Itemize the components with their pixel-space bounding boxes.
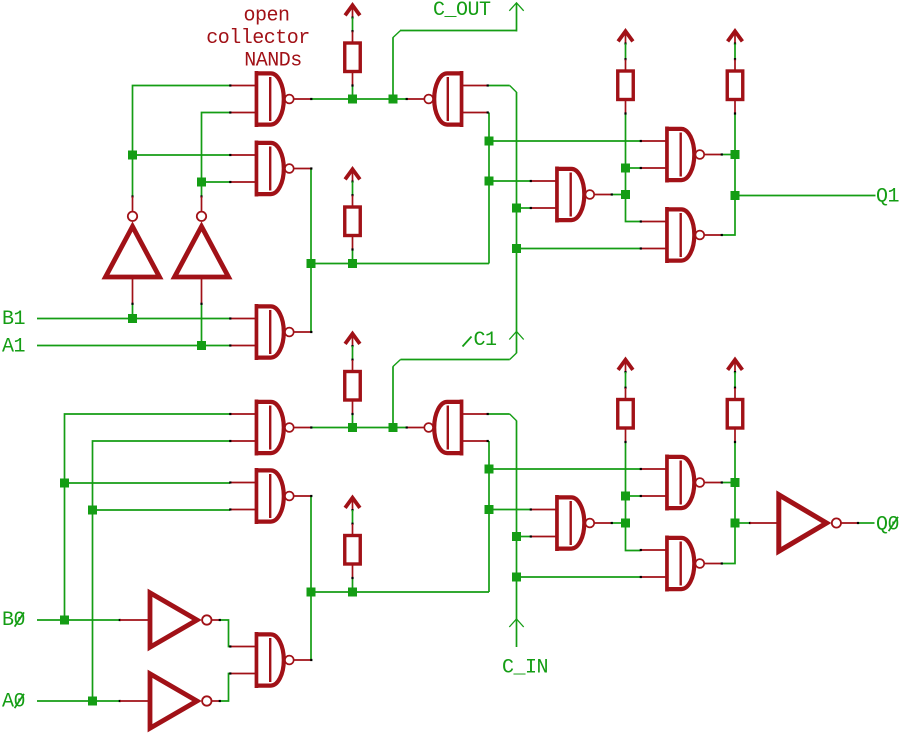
wire net A1 input line (37, 345, 230, 347)
wire net C1OUT horizontal G1.out to G3.out (312, 98, 407, 100)
node Q0 label (876, 514, 899, 537)
wire net A0 input line (37, 700, 120, 702)
junction J6 net C1OUT at C_OUT riser (389, 95, 398, 104)
wire net B0 riser (65, 414, 231, 620)
wire net G6 output link (612, 194, 626, 196)
wire net C1OUT resistor R1 drop (352, 86, 354, 100)
wire net CIN diagonal corner (510, 414, 517, 421)
connector arrow C1 (509, 332, 523, 340)
wire net C1OUT connector riser (516, 3, 518, 32)
wire net C1 diagonal corner left (393, 360, 401, 367)
wire net NA1 inverter2 output riser (202, 113, 231, 197)
wire net C1 from G3 input (489, 85, 510, 87)
wire net R3 column bit1 (626, 114, 641, 222)
junction J18 net A0 at G2b.in2 (88, 506, 97, 515)
wire net C1OUT diagonal corner (393, 31, 401, 38)
svg-text:A1: A1 (2, 336, 26, 359)
resistor R6 pull-up with VCC arrow (345, 498, 361, 579)
NAND gate U4 NAND open-collector (229, 304, 312, 360)
wire net Q1 column (721, 114, 735, 236)
svg-text:Q1: Q1 (876, 186, 900, 209)
svg-text:NANDs: NANDs (244, 50, 302, 73)
wire net C1 vertical x516 (516, 92, 518, 353)
wire net R3b column bit0 (626, 442, 641, 551)
inverter U18 (A0, points right) (119, 674, 221, 728)
wire net Q1 output line (735, 195, 876, 197)
wire net C1 horizontal crossover (401, 359, 510, 361)
resistor R7 pull-up with VCC arrow (618, 360, 634, 443)
NAND gate U1 NAND open-collector (B1,A1 bars) (229, 71, 312, 127)
svg-text:collector: collector (206, 27, 310, 50)
wire net S0 branch to G6b input (489, 509, 530, 511)
junction J29 net R3b at G5b.in2 (621, 492, 630, 501)
junction J22 net C1 at riser (389, 423, 398, 432)
svg-text:B1: B1 (2, 308, 26, 331)
junction J25 net S0 to G5b.in1 (485, 465, 494, 474)
junction J2 net NA1 at G2.in2 (197, 178, 206, 187)
wire net NA0 inverter4 output (220, 674, 230, 702)
resistor R2 pull-up with VCC arrow (345, 169, 361, 250)
wire net S1 resistor R2 drop (352, 250, 354, 264)
junction J20 net A0 at input (88, 697, 97, 706)
NAND gate U8 NAND open-collector bit0 (229, 400, 312, 456)
wire net NB1 inverter1 output riser (133, 86, 231, 197)
NAND gate U12 NAND middle bit0 (530, 495, 613, 551)
wire net S1 branch to G5 input (489, 140, 640, 142)
resistor R8 pull-up with VCC arrow (727, 360, 743, 443)
wire net NA1 branch to G2.in2 (202, 181, 231, 183)
wire net S0 horizontal row (311, 591, 489, 593)
junction J12 net C1 to G7.in2 (512, 244, 521, 253)
NAND gate U7 NAND sum bit1 bottom (640, 207, 723, 263)
junction J23 net S0 at G2b-G4b bend (307, 588, 316, 597)
inverter U17 (B0, points right) (119, 593, 221, 647)
junction J24 net S0 at R6 (348, 588, 357, 597)
svg-text:C_OUT: C_OUT (433, 0, 491, 22)
wire net R3 branch to G5.in2 (626, 167, 641, 169)
junction J10 net S1 to G6.in1 (485, 177, 494, 186)
wire net Q0 output line (859, 522, 875, 524)
wire net R3b branch to G5b.in2 (626, 495, 641, 497)
junction J1 net NB1 at G2.in1 (128, 151, 137, 160)
wire net C1OUT vertical to C_OUT bend (392, 37, 394, 100)
wire net B0 input line (37, 619, 120, 621)
junction J11 net C1 to G6.in2 (512, 204, 521, 213)
junction J7 net S1 at G2-G4 bend (307, 259, 316, 268)
NAND gate U10 NAND open-collector bit0 (229, 468, 312, 524)
wire net Q0pre to inverter (735, 522, 750, 524)
junction J27 net CIN to G6b.in2 (512, 532, 521, 541)
inverter U19 Q0 output buffer (749, 495, 859, 551)
resistor R1 pull-up with VCC arrow (345, 5, 361, 86)
junction J32 net Q0pre at inverter (731, 519, 740, 528)
wire net C1 branch to G7 input (517, 248, 641, 250)
connector arrow C_OUT (509, 3, 523, 11)
wire net NB1 branch to G2.in1 (133, 154, 231, 156)
junction J13 net R3 at G5.in2 (621, 164, 630, 173)
junction J15 net Q1 at G5.out (731, 150, 740, 159)
junction J9 net S1 to G5.in1 (485, 137, 494, 146)
wire net Q0pre column (721, 442, 735, 564)
wire net S0 vertical riser x489 (488, 441, 490, 592)
NAND gate U14 NAND open-collector bit0 (229, 632, 312, 688)
svg-text:B0: B0 (2, 609, 25, 632)
wire net NB0 inverter3 output (220, 620, 230, 647)
junction J3 net B1 at inverter1 (128, 314, 137, 323)
wire net C1 horizontal G1b.out to G3b.out (312, 427, 407, 429)
junction J28 net CIN to G7b.in2 (512, 573, 521, 582)
resistor R5 pull-up with VCC arrow (345, 334, 361, 415)
wire net C1 branch to G6 input (517, 207, 531, 209)
wire net S0 branch to G5b input (489, 468, 640, 470)
NAND gate U11 NAND sum bit0 top (640, 455, 723, 511)
wire net S1 horizontal row (311, 263, 489, 265)
junction J14 net R3 at G6.out (621, 190, 630, 199)
node B0 label (2, 609, 25, 632)
NAND gate U13 NAND sum bit0 bottom (640, 536, 723, 592)
svg-text:C1: C1 (474, 329, 498, 352)
junction J8 net S1 at R2 (348, 259, 357, 268)
NAND gate U5 NAND sum bit1 top (640, 127, 723, 183)
wire net C1 vertical drop to bit0 (392, 366, 394, 427)
NAND gate U2 NAND open-collector (229, 141, 312, 197)
resistor R4 pull-up with VCC arrow (727, 31, 743, 114)
NAND gate U9 NAND carry bit0 (mirrored) (406, 400, 489, 456)
svg-text:C_IN: C_IN (502, 657, 548, 680)
wire net A0 branch to G2b.in2 (93, 509, 231, 511)
wire net B0 branch to G2b.in1 (65, 482, 231, 484)
wire net S1 vertical riser x489 (488, 113, 490, 264)
junction J16 net Q1 at output line (731, 191, 740, 200)
wire net G6b output link (612, 522, 626, 524)
svg-text:open: open (243, 5, 289, 28)
wire net S0 resistor R6 drop (352, 579, 354, 593)
NAND gate U6 NAND middle bit1 (530, 167, 613, 223)
svg-text:A0: A0 (2, 691, 25, 714)
wire net Q0pre G5b output link (721, 482, 735, 484)
junction J30 net R3b at G6b.out (621, 519, 630, 528)
node /C1 label (463, 329, 498, 352)
wire net A1 inverter stub (201, 304, 203, 346)
junction J4 net A1 at inverter2 (197, 341, 206, 350)
wire net C1 resistor R5 drop (352, 414, 354, 428)
wire net S1 vertical G2.out to G4.out (310, 169, 312, 333)
wire net S1 branch to G6 input (489, 180, 530, 182)
wire net C1 diagonal corner bottom (510, 353, 517, 360)
junction J17 net B0 at G2b.in1 (60, 479, 69, 488)
wire net CIN branch to G6b input (517, 536, 531, 538)
wire net B1 input line (37, 318, 230, 320)
NAND gate U3 NAND carry (mirrored) (406, 71, 489, 127)
junction J19 net B0 at input (60, 616, 69, 625)
inverter U15 (B1, points up) (106, 195, 160, 305)
node A0 label (2, 691, 25, 714)
wire net A0 riser (93, 441, 231, 701)
junction J26 net S0 to G6b.in1 (485, 505, 494, 514)
wire net Q1 G5 output link (721, 154, 735, 156)
inverter U16 (A1, points up) (175, 195, 229, 305)
junction J31 net Q0pre at G5b.out (731, 478, 740, 487)
wire net C1OUT horizontal to connector (400, 30, 517, 32)
connector arrow C_IN (509, 619, 523, 627)
wire net CIN vertical x516 (516, 421, 518, 648)
note label "open collector NANDs" (206, 5, 310, 73)
junction J5 net C1OUT at R1 (348, 95, 357, 104)
wire net S0 vertical G2b.out to G4b.out (310, 496, 312, 660)
wire net C1 diagonal corner top (510, 86, 517, 93)
resistor R3 pull-up with VCC arrow (618, 31, 634, 114)
svg-text:Q0: Q0 (876, 514, 899, 537)
wire net CIN from G3b input (489, 413, 510, 415)
wire net B1 inverter stub (132, 304, 134, 319)
wire net CIN branch to G7b input (517, 576, 641, 578)
junction J21 net C1 at R5 (348, 423, 357, 432)
